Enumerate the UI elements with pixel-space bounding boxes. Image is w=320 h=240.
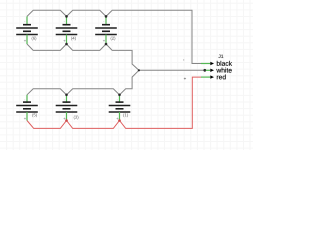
wire: red positive bus (row 2 bottom) to J1 pin 3 bbox=[27, 77, 201, 128]
label pin 2 white bbox=[216, 68, 231, 73]
label pin 3 red bbox=[217, 74, 226, 79]
polarity plus at J1 positive feed bbox=[184, 78, 186, 80]
label J1 bbox=[218, 55, 223, 58]
polarity minus at J1 negative feed bbox=[183, 59, 184, 61]
junction dot on white wire at J1 pin 2 bbox=[203, 69, 206, 72]
battery BT4 (4) bbox=[56, 16, 78, 44]
wire: center tap to J1 pin 2 (white) bbox=[139, 69, 205, 71]
battery BT1 (1) bbox=[109, 95, 131, 121]
junction dots on gray nets bbox=[65, 15, 140, 96]
battery BT2 (2) bbox=[95, 16, 117, 44]
connector J1 pin 2 lead bbox=[206, 69, 211, 71]
connector J1 pin 3 lead bbox=[201, 76, 210, 78]
label pin 1 black bbox=[217, 61, 232, 66]
junction dots on red net bbox=[65, 119, 121, 122]
connector J1 pin 1 lead bbox=[201, 63, 210, 65]
battery BT5 (5) bbox=[16, 95, 38, 121]
battery BT3 (3) bbox=[56, 95, 79, 121]
battery BT6 (6) bbox=[16, 16, 38, 44]
wire: row 2 top bus to center-tap junction bbox=[27, 70, 139, 95]
wire: row 1 bottom bus to center-tap junction bbox=[27, 44, 139, 70]
wire: top negative bus (row 1) to J1 pin 1 bbox=[27, 10, 201, 63]
